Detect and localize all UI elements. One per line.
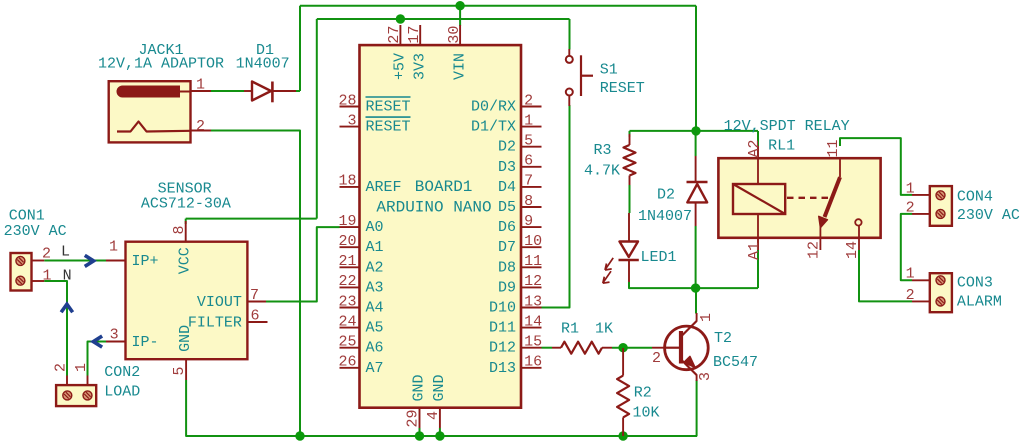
svg-text:D12: D12 (489, 340, 516, 357)
wire D1 cathode to riser (295, 90, 300, 92)
arduino pin 14 D11 right stub (521, 327, 542, 329)
CON1 screw 1 (16, 256, 25, 265)
svg-text:19: 19 (338, 213, 356, 230)
arduino pin 8 D5 right stub (521, 206, 542, 208)
sensor pin 6 FILTER stub (247, 321, 267, 323)
svg-text:D6: D6 (498, 219, 516, 236)
diode D2 (687, 184, 707, 202)
arduino pin 17 3V3 top stub (419, 25, 421, 45)
svg-text:1: 1 (43, 267, 52, 284)
CON4 screw 2 (936, 209, 945, 218)
arduino pin 30 VIN top stub (459, 25, 461, 45)
svg-text:5: 5 (171, 366, 188, 375)
arduino pin 15 D12 right stub (521, 347, 542, 349)
relay dashed link (787, 197, 832, 199)
svg-text:1: 1 (73, 363, 90, 372)
svg-text:R2: R2 (634, 385, 652, 402)
svg-text:10: 10 (524, 233, 542, 250)
svg-text:A2: A2 (746, 139, 763, 157)
svg-text:A7: A7 (366, 360, 384, 377)
wire +12V riser from D1 cathode (299, 6, 301, 91)
wire VIN stub link (459, 6, 461, 26)
node junction ground rail GND pin29 (415, 431, 424, 440)
transistor emitter stub (696, 375, 698, 382)
svg-text:2: 2 (524, 92, 533, 109)
relay pin A2 stub (757, 146, 759, 158)
connector CON1 body (11, 253, 32, 291)
svg-text:12V,1A ADAPTOR: 12V,1A ADAPTOR (98, 56, 224, 73)
arduino pin 25 A6 left stub (340, 347, 360, 349)
wire R3 top bend (629, 131, 631, 137)
svg-text:IP+: IP+ (132, 253, 159, 270)
wire CON1 pin1 to CON2 pin2 (N) (44, 281, 67, 376)
wire R1 to base node (612, 347, 652, 349)
resistor R1 (561, 342, 602, 354)
svg-text:9: 9 (524, 213, 533, 230)
svg-text:S1: S1 (600, 62, 618, 79)
arduino pin 22 A3 left stub (340, 286, 360, 288)
wire relay A1 riser (757, 250, 759, 288)
svg-text:7: 7 (250, 287, 259, 304)
CON3 pin 1 stub (912, 279, 930, 281)
svg-text:N: N (63, 268, 72, 285)
svg-text:11: 11 (825, 139, 842, 157)
svg-text:6: 6 (524, 153, 533, 170)
svg-text:1: 1 (109, 239, 118, 256)
svg-text:1: 1 (698, 313, 715, 322)
svg-text:230V AC: 230V AC (4, 223, 67, 240)
svg-text:ARDUINO NANO: ARDUINO NANO (376, 198, 491, 216)
svg-text:GND: GND (177, 325, 194, 352)
relay switch arm (825, 177, 841, 217)
svg-text:D7: D7 (498, 239, 516, 256)
wire +12V rail from D1 to VIN and relay branch (300, 5, 696, 7)
arduino pin 2 D0/RX right stub (521, 106, 542, 108)
svg-text:30: 30 (446, 26, 463, 44)
svg-text:17: 17 (406, 26, 423, 44)
arduino pin 1 D1/TX right stub (521, 126, 542, 128)
CON2 pin 1 stub (87, 376, 89, 386)
transistor base stub (652, 347, 665, 349)
svg-text:2: 2 (42, 246, 51, 263)
svg-text:2: 2 (652, 350, 661, 367)
svg-text:D4: D4 (498, 179, 516, 196)
arduino pin 9 D6 right stub (521, 226, 542, 228)
svg-text:18: 18 (338, 173, 356, 190)
node junction ground rail at R2 (618, 431, 627, 440)
sensor pin 3 IP- stub (106, 341, 126, 343)
CON2 screw 1 (83, 391, 92, 400)
svg-text:1K: 1K (595, 320, 613, 337)
svg-text:AREF: AREF (366, 179, 402, 196)
svg-text:15: 15 (524, 334, 542, 351)
JACK1 spring contact (117, 122, 190, 132)
svg-text:2: 2 (906, 199, 915, 216)
svg-text:A0: A0 (366, 219, 384, 236)
sensor pin 5 GND stub (185, 359, 187, 380)
arduino pin 5 D2 right stub (521, 146, 542, 148)
switch S1 actuator bar (580, 55, 582, 96)
CON3 screw 2 (936, 297, 945, 306)
svg-text:CON2: CON2 (104, 364, 140, 381)
resistor R3 (624, 145, 636, 176)
connector CON2 body (56, 385, 96, 406)
svg-text:RESET: RESET (366, 99, 411, 116)
arduino pin 7 D4 right stub (521, 186, 542, 188)
wire CON4 pin2 to CON3 pin1 (901, 214, 912, 280)
wire VIOUT to A0 (266, 227, 340, 301)
svg-text:BC547: BC547 (713, 354, 758, 371)
node junction ground rail GND pin4 (435, 431, 444, 440)
switch S1 top stub (568, 49, 570, 56)
svg-text:D1/TX: D1/TX (471, 119, 516, 136)
LED1 emission arrows (603, 258, 613, 283)
svg-text:14: 14 (524, 313, 542, 330)
node junction VIN on +12V rail (455, 1, 464, 10)
wire emitter to ground rail (696, 380, 698, 436)
connector CON3 body (930, 273, 952, 312)
svg-text:12V,SPDT RELAY: 12V,SPDT RELAY (724, 118, 850, 135)
svg-text:23: 23 (338, 293, 356, 310)
arduino RESET overline (366, 116, 411, 118)
svg-text:T2: T2 (714, 330, 732, 347)
arduino pin 16 D13 right stub (521, 367, 542, 369)
switch S1 contact bottom (566, 89, 573, 96)
svg-text:7: 7 (524, 173, 533, 190)
svg-text:A4: A4 (366, 300, 384, 317)
JACK1 pin 2 stub (191, 130, 212, 132)
wire GND pin4 link (439, 428, 441, 436)
svg-text:D2: D2 (498, 139, 516, 156)
diode D1 (252, 82, 271, 101)
svg-text:2: 2 (906, 287, 915, 304)
svg-text:GND: GND (411, 374, 428, 401)
svg-text:14: 14 (844, 241, 861, 259)
wire LED1 bottom to node (629, 282, 758, 288)
svg-text:VIN: VIN (451, 53, 468, 80)
relay coil pin lines (757, 158, 759, 184)
svg-text:VIOUT: VIOUT (197, 294, 242, 311)
wire sensor GND to ground rail (186, 380, 697, 436)
svg-text:5: 5 (524, 133, 533, 150)
wire D2 bottom link (695, 226, 697, 288)
svg-text:28: 28 (338, 92, 356, 109)
CON2 pin 2 stub (66, 376, 68, 386)
arduino pin 12 D9 right stub (521, 286, 542, 288)
CON1 screw 2 (16, 276, 25, 285)
svg-text:13: 13 (524, 293, 542, 310)
CON4 screw 1 (936, 191, 945, 200)
node junction ground rail at jack return (295, 431, 304, 440)
arduino pin 29 GND bottom stub (419, 408, 421, 428)
node junction relay coil top node (691, 126, 700, 135)
svg-text:24: 24 (338, 313, 356, 330)
IC BOARD1 Arduino Nano body (360, 45, 522, 408)
svg-text:20: 20 (338, 233, 356, 250)
svg-text:VCC: VCC (176, 247, 193, 274)
relay NO contact (855, 219, 861, 225)
wire D12 to R1 (542, 347, 553, 349)
svg-text:D9: D9 (498, 279, 516, 296)
svg-text:1N4007: 1N4007 (236, 56, 290, 73)
svg-text:R3: R3 (594, 142, 612, 159)
svg-text:A3: A3 (366, 279, 384, 296)
arduino pin 26 A7 left stub (340, 367, 360, 369)
wire relay A2 link (757, 131, 759, 146)
svg-text:8: 8 (524, 193, 533, 210)
switch S1 bottom stub (568, 96, 570, 107)
JACK1 pin 1 stub (191, 90, 212, 92)
svg-text:A6: A6 (366, 340, 384, 357)
svg-text:2: 2 (53, 363, 70, 372)
JACK1 barrel (117, 86, 180, 97)
svg-text:6: 6 (251, 308, 260, 325)
node junction relay coil bottom node (691, 283, 700, 292)
svg-text:D11: D11 (489, 320, 516, 337)
node junction +5V pin27 (396, 14, 405, 23)
transistor T2 BC547 (665, 326, 709, 370)
svg-text:L: L (61, 244, 70, 261)
arduino pin 28 RESET left stub (340, 106, 360, 108)
CON3 screw 1 (936, 276, 945, 285)
svg-text:16: 16 (524, 354, 542, 371)
transistor collector stub (696, 313, 698, 322)
svg-text:22: 22 (338, 273, 356, 290)
arrow IP- line left (93, 337, 100, 346)
relay RL1 body (718, 158, 880, 238)
svg-text:29: 29 (405, 409, 422, 427)
svg-text:D2: D2 (657, 187, 675, 204)
svg-text:CON3: CON3 (957, 275, 993, 292)
wire JACK1 pin2 down to ground rail (208, 131, 300, 437)
svg-text:2: 2 (196, 118, 205, 135)
svg-text:RESET: RESET (366, 119, 411, 136)
arduino pin 20 A1 left stub (340, 246, 360, 248)
arduino pin 27 +5V top stub (399, 25, 401, 45)
wire sensor VCC horizontal (186, 218, 317, 220)
arduino pin 21 A2 left stub (340, 266, 360, 268)
arduino pin 13 D10 right stub (521, 307, 542, 309)
arduino pin 4 GND bottom stub (439, 408, 441, 428)
wire R3 to LED1 (629, 185, 631, 213)
relay pin A1 stub (757, 238, 759, 250)
CON2 screw 2 (63, 391, 72, 400)
svg-text:LED1: LED1 (641, 249, 677, 266)
svg-text:+5V: +5V (392, 53, 409, 80)
arduino pin 24 A5 left stub (340, 327, 360, 329)
wire relay coil node horizontal top (630, 130, 759, 132)
svg-text:27: 27 (386, 26, 403, 44)
svg-text:A1: A1 (746, 242, 763, 260)
svg-text:LOAD: LOAD (104, 384, 140, 401)
svg-text:8: 8 (171, 225, 188, 234)
sensor pin 7 VIOUT stub (247, 301, 266, 303)
svg-text:A2: A2 (366, 259, 384, 276)
svg-text:3: 3 (697, 372, 714, 381)
arrow L line right (86, 256, 93, 265)
resistor R2 (617, 376, 629, 418)
svg-text:D3: D3 (498, 159, 516, 176)
svg-text:3: 3 (110, 327, 119, 344)
connector JACK1 body (109, 81, 191, 142)
CON1 pin 2 stub (32, 260, 45, 262)
wire +12V drop to relay coil node (695, 6, 697, 131)
svg-text:12: 12 (806, 241, 823, 259)
svg-text:D13: D13 (489, 360, 516, 377)
arduino RESET overline (366, 96, 411, 98)
connector CON4 body (930, 186, 952, 226)
svg-text:1: 1 (524, 112, 533, 129)
svg-text:25: 25 (338, 334, 356, 351)
svg-text:CON1: CON1 (9, 208, 45, 225)
node junction base node R1/R2 (618, 343, 627, 352)
arduino pin 3 RESET left stub (340, 126, 360, 128)
CON4 pin 1 stub (912, 194, 930, 196)
svg-text:CON4: CON4 (957, 188, 993, 205)
sensor ACS712 body (126, 242, 248, 360)
svg-text:10K: 10K (633, 405, 660, 422)
svg-text:D0/RX: D0/RX (471, 99, 516, 116)
svg-text:A1: A1 (366, 239, 384, 256)
svg-text:R1: R1 (561, 320, 579, 337)
svg-text:4: 4 (425, 411, 442, 420)
svg-text:D8: D8 (498, 259, 516, 276)
sensor pin 1 IP+ stub (106, 260, 126, 262)
arduino pin 11 D8 right stub (521, 266, 542, 268)
wire relay pin11 to CON4 pin1 (840, 138, 912, 195)
svg-text:21: 21 (338, 253, 356, 270)
svg-text:ACS712-30A: ACS712-30A (141, 196, 231, 213)
relay pin 12 line (819, 227, 821, 250)
svg-text:1: 1 (906, 266, 915, 283)
arduino pin 6 D3 right stub (521, 166, 542, 168)
switch S1 contact top (566, 56, 573, 63)
wire CON2 pin1 to sensor IP- (88, 342, 107, 376)
svg-text:D5: D5 (498, 199, 516, 216)
svg-text:1: 1 (906, 180, 915, 197)
wire GND pin29 link (419, 428, 421, 436)
svg-text:26: 26 (338, 354, 356, 371)
relay coil (733, 184, 785, 214)
wire collector to relay node (695, 288, 697, 313)
wire +5V drop to sensor VCC (316, 19, 318, 219)
CON1 pin 1 stub (32, 280, 45, 282)
wire +5V to S1 top contact (569, 19, 571, 50)
CON3 pin 2 stub (912, 300, 930, 302)
svg-text:12: 12 (524, 273, 542, 290)
svg-text:IP-: IP- (132, 334, 159, 351)
arduino pin 10 D7 right stub (521, 246, 542, 248)
arduino pin 19 A0 left stub (340, 226, 360, 228)
svg-text:ALARM: ALARM (957, 294, 1002, 311)
wire +5V rail from pin27 to S1 (317, 18, 570, 20)
svg-text:11: 11 (524, 253, 542, 270)
sensor pin 8 VCC stub (185, 221, 187, 242)
svg-text:BOARD1: BOARD1 (415, 178, 473, 196)
relay common pin line (839, 158, 841, 177)
wire JACK1 pin1 to D1 anode (208, 90, 244, 92)
LED LED1 (620, 242, 639, 258)
svg-text:3: 3 (347, 112, 356, 129)
svg-text:3V3: 3V3 (411, 53, 428, 80)
svg-text:1N4007: 1N4007 (638, 208, 692, 225)
svg-text:D10: D10 (489, 300, 516, 317)
svg-text:1: 1 (196, 77, 205, 94)
wire S1 bottom to D10 (542, 105, 570, 308)
svg-text:GND: GND (431, 374, 448, 401)
wire relay pin14 to CON3 pin2 (859, 250, 912, 301)
svg-text:A5: A5 (366, 320, 384, 337)
svg-text:4.7K: 4.7K (584, 163, 620, 180)
svg-text:FILTER: FILTER (188, 315, 242, 332)
wire CON1 pin2 to sensor IP+ (L) (44, 260, 106, 262)
svg-text:RL1: RL1 (768, 138, 795, 155)
arrow N line up (62, 304, 71, 311)
wire D2 top link (695, 131, 697, 156)
arduino pin 18 AREF left stub (340, 186, 360, 188)
arduino pin 23 A4 left stub (340, 307, 360, 309)
svg-text:230V AC: 230V AC (957, 207, 1020, 224)
svg-text:RESET: RESET (600, 80, 645, 97)
CON4 pin 2 stub (912, 213, 930, 215)
